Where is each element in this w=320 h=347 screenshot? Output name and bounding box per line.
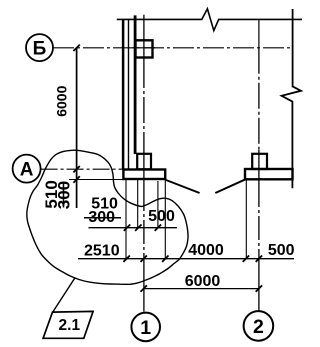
node axis 1 bubble (131, 313, 160, 342)
right bracket plate (245, 169, 293, 179)
svg-text:А: А (20, 159, 34, 180)
tick at Б (73, 45, 79, 51)
node axis Б bubble (26, 34, 53, 61)
wire vertical dimension line 6000 (76, 48, 78, 208)
svg-text:500: 500 (268, 242, 295, 259)
wire dimension line 6000 bottom (144, 288, 259, 290)
svg-text:2: 2 (253, 316, 264, 338)
right roof slope line (215, 179, 245, 193)
revision cloud (27, 150, 188, 284)
tick x126.6 (123, 256, 129, 262)
strike line over 300 horizontal (84, 217, 121, 219)
node axis 2 line (258, 48, 260, 150)
svg-text:2510: 2510 (84, 243, 120, 260)
left roof slope line (166, 180, 200, 193)
column K1 right flange (134, 15, 137, 154)
tick x143.7 (141, 256, 147, 262)
svg-text:6000: 6000 (185, 273, 221, 290)
wire top beam line with break (117, 9, 302, 31)
svg-text:6000: 6000 (54, 85, 70, 116)
extension line x137.7 (137, 180, 139, 228)
tick at А (73, 166, 79, 172)
node axis 2 bubble (244, 311, 274, 341)
wire dimension line 510-300-500 (89, 227, 178, 229)
left bracket plate (123, 170, 165, 180)
wire axis 2 top segment (258, 19, 260, 47)
extension line x165.3 (164, 180, 166, 259)
tick x245.9 (243, 256, 249, 262)
node axis 1 line (143, 15, 145, 62)
extension line x157.9 (157, 181, 159, 228)
tick left (141, 285, 147, 291)
revision marker parallelogram (43, 311, 93, 338)
left bracket anchor block (137, 154, 151, 170)
wire right wall line with break (282, 9, 301, 188)
svg-text:4000: 4000 (188, 242, 224, 259)
tick x127 (124, 225, 130, 231)
node axis А bubble (13, 155, 41, 183)
wire axis Б dash-dot line (53, 47, 293, 49)
anchor plate at Б (136, 40, 153, 57)
column K1 left flange (122, 19, 125, 169)
right bracket anchor block (252, 154, 267, 169)
tick x258.9 (256, 256, 262, 262)
tick x138.3 (135, 225, 141, 231)
tick x165.3 (162, 256, 168, 262)
svg-text:1: 1 (140, 317, 151, 339)
column K1 web line (128, 19, 130, 169)
svg-text:300: 300 (88, 209, 115, 226)
tick right (256, 285, 262, 291)
strike line over 300 rotated (63, 183, 65, 208)
svg-text:2.1: 2.1 (59, 317, 81, 334)
wire dimension line 2510-4000-500 (78, 258, 294, 260)
tick at eaves level (73, 176, 79, 182)
svg-text:500: 500 (148, 208, 175, 225)
extension line x246.3 (245, 180, 247, 259)
revision marker leader line (53, 278, 75, 312)
extension line x126 (125, 180, 127, 259)
svg-text:Б: Б (33, 39, 47, 60)
wire axis А dash-dot line (41, 168, 123, 170)
wire eaves extension line (69, 179, 123, 181)
tick x157.9 (155, 225, 161, 231)
svg-text:300: 300 (55, 181, 74, 209)
